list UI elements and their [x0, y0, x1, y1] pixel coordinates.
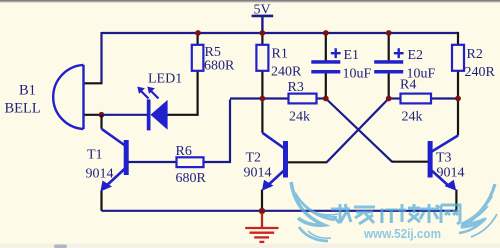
wire R1 top lead: [261, 33, 263, 45]
svg-text:680R: 680R: [204, 59, 235, 74]
svg-text:E1: E1: [344, 48, 360, 63]
wire T3 base horizontal: [392, 161, 429, 163]
resistor R2 body: [452, 45, 464, 71]
resistor R1 body: [256, 45, 268, 71]
svg-text:9014: 9014: [86, 167, 114, 182]
bell B1 symbol: [53, 65, 83, 129]
wire R2 bottom lead: [457, 71, 459, 99]
junction dot R4/E2: [386, 96, 392, 102]
resistor R5 body: [192, 45, 204, 71]
svg-text:LED1: LED1: [148, 72, 182, 87]
junction dot E1/top rail: [323, 30, 329, 36]
resistor R6 body: [177, 157, 204, 167]
wire 5V stem: [261, 17, 263, 34]
svg-text:24k: 24k: [402, 110, 423, 125]
wire R1 bottom lead: [261, 71, 263, 99]
svg-text:E2: E2: [408, 48, 424, 63]
svg-text:R4: R4: [400, 78, 416, 93]
junction dot 5V/R1: [260, 30, 266, 36]
svg-text:R3: R3: [288, 80, 304, 95]
svg-text:24k: 24k: [289, 110, 310, 125]
wire T1 emitter stub: [100, 191, 102, 211]
svg-text:9014: 9014: [437, 166, 465, 181]
wire T3 emitter stub: [455, 190, 457, 212]
wire node row: T2 collector node to R3: [230, 97, 289, 99]
svg-text:R2: R2: [467, 47, 483, 62]
wire R2 top lead from rail corner: [457, 32, 459, 45]
junction dot ground: [259, 208, 265, 214]
svg-text:T1: T1: [87, 148, 103, 163]
svg-text:BELL: BELL: [5, 101, 41, 117]
resistor R3 body: [289, 94, 317, 104]
chinese char 网: [441, 205, 460, 224]
E2 plus sign: [394, 48, 404, 58]
wire vertical link R6 to T2 collector node: [204, 100, 232, 164]
chinese char 爱: [354, 207, 375, 224]
watermark: [291, 182, 497, 241]
wire LED cathode to node A: [102, 114, 148, 116]
wire T2 emitter stub: [261, 190, 263, 211]
wire top rail 5V: [102, 32, 459, 34]
junction dot R5/top rail: [195, 30, 201, 36]
wire bell bottom terminal: [84, 114, 102, 116]
wire bottom ground rail: [102, 210, 457, 212]
svg-text:10uF: 10uF: [343, 67, 372, 82]
5V terminal bar: [252, 15, 274, 18]
E1 plus sign: [331, 48, 341, 58]
junction dot R1/T2 collector: [260, 96, 266, 102]
svg-text:T3: T3: [436, 151, 452, 166]
capacitor E2 plates: [374, 60, 403, 73]
svg-text:240R: 240R: [465, 65, 496, 80]
chinese char 术: [419, 204, 439, 223]
junction dot R3/E1: [323, 96, 329, 102]
svg-text:240R: 240R: [271, 65, 302, 80]
svg-text:www.52ij.com: www.52ij.com: [363, 226, 441, 241]
node A bell/LED/T1 junction: [99, 112, 105, 118]
wire R5 top lead: [197, 33, 199, 46]
transistor T3: [428, 136, 458, 191]
svg-text:R1: R1: [272, 47, 288, 62]
svg-text:680R: 680R: [176, 171, 207, 186]
wire R4 left lead: [389, 97, 401, 99]
left wing: [291, 182, 338, 241]
wire LED anode to R5: [167, 70, 198, 115]
chinese char 技: [398, 204, 420, 222]
wire bell top terminal: [84, 82, 103, 84]
LED1 symbol: [137, 87, 167, 131]
svg-text:B1: B1: [19, 83, 36, 99]
wire E1 bottom lead: [325, 73, 327, 98]
wire T1 base to R6: [129, 161, 177, 163]
wire T3 collector vertical: [457, 99, 459, 136]
capacitor E1 plates: [311, 60, 340, 73]
wire R3 right lead: [317, 97, 326, 99]
wire T2 collector vertical: [261, 99, 263, 133]
ground symbol: [245, 213, 278, 242]
wire T2 base horizontal: [288, 161, 328, 163]
resistor R4 body: [401, 94, 432, 104]
right wing: [459, 184, 497, 237]
transistor T1: [100, 129, 128, 192]
transistor T2: [262, 133, 288, 191]
wire cross-coupling diagonal A from E1 node down to T3 base: [326, 99, 392, 162]
wire E2 top lead: [388, 33, 390, 61]
wire E2 bottom lead: [388, 73, 390, 98]
wire left vertical from top rail to bell: [100, 32, 102, 83]
junction dot R2/R4/T3 collector: [455, 96, 461, 102]
junction dot E2/top rail: [386, 30, 392, 36]
svg-text:5V: 5V: [254, 3, 271, 18]
svg-text:T2: T2: [246, 151, 262, 166]
svg-text:9014: 9014: [244, 166, 272, 181]
wire E1 top lead: [325, 33, 327, 61]
svg-text:IT: IT: [379, 205, 398, 228]
svg-text:R6: R6: [176, 144, 192, 159]
wire R4 right lead: [431, 97, 458, 99]
chinese char 我: [331, 204, 351, 223]
wire cross-coupling diagonal B from T2 base up to E2 node: [327, 99, 389, 163]
wire T1 collector stub: [100, 115, 102, 129]
